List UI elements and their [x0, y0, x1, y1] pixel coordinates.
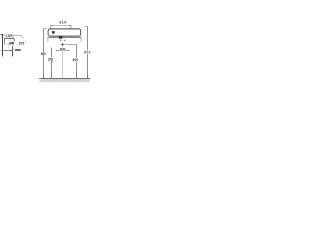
svg-text:600: 600	[73, 58, 79, 62]
svg-text:840: 840	[41, 52, 46, 56]
svg-text:270: 270	[8, 34, 13, 38]
svg-text:870: 870	[84, 50, 90, 54]
svg-text:310: 310	[59, 21, 66, 25]
svg-text:Ø46: Ø46	[9, 42, 14, 46]
svg-text:225: 225	[19, 42, 25, 46]
svg-text:(70): (70)	[48, 57, 53, 61]
